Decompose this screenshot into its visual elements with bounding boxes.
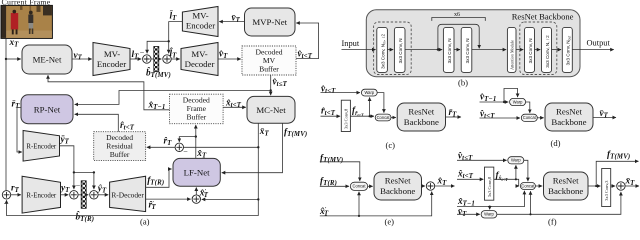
wire Warp to Concat (d)	[526, 102, 530, 113]
node vhat(t<=T) label	[273, 77, 288, 88]
wire xhat(T-1) frame buffer to ME-Net	[48, 75, 170, 110]
wire bar R to adder B2	[86, 194, 88, 196]
wire backbone to conv3 (f)	[588, 185, 601, 187]
svg-text:(e): (e)	[385, 217, 395, 227]
svg-text:3x3 Conv, N, ↑2: 3x3 Conv, N, ↑2	[545, 35, 550, 68]
wire vbarT MVP-Net to upper MV-Encoder	[219, 21, 244, 23]
svg-text:v̂t≤T: v̂t≤T	[273, 77, 288, 88]
node vhat(t<T) label	[298, 49, 313, 60]
svg-text:x̂T−1: x̂T−1	[457, 196, 475, 207]
node vhatT label	[219, 49, 228, 60]
op Warp (d)	[510, 98, 526, 105]
conv box 3x3 Conv N (res1)	[443, 27, 454, 72]
junction skip start	[437, 48, 439, 50]
wire Concat to backbone (f)	[535, 185, 542, 187]
svg-text:Decoder: Decoder	[185, 59, 215, 69]
wire f_T(MV) output up and right (f)	[596, 161, 638, 186]
wire self-loop into Warp top (d)	[504, 89, 518, 103]
svg-text:MV-: MV-	[191, 49, 207, 59]
adder F	[617, 182, 625, 190]
node vhat(T-1) input label (d)	[480, 92, 496, 103]
svg-text:(d): (d)	[551, 138, 561, 148]
wire rhat'T R-Decoder to adder LF	[146, 198, 191, 200]
op Warp (c)	[361, 89, 377, 96]
node xbarT label	[259, 127, 270, 138]
wire xhatT branch to residual subtractor	[179, 137, 196, 142]
conv box 3x3 Conv 8 (f)	[485, 167, 494, 200]
wire Concat to backbone (e)	[368, 185, 373, 187]
wire f_T(R) to Concat (e)	[320, 185, 349, 187]
adder A2 (add lbar back)	[163, 55, 171, 63]
node vbarT label	[232, 14, 241, 25]
junction xbarT at rhat line	[257, 146, 259, 148]
node xT label	[9, 38, 20, 49]
svg-text:b̂T(R): b̂T(R)	[76, 210, 95, 223]
wire xbarT branch to adder LF	[202, 198, 259, 200]
wire input to conv1	[342, 49, 376, 51]
wire warped frame branch up to Concat (f)	[530, 191, 532, 214]
svg-text:v̂T: v̂T	[219, 49, 228, 60]
bitstream bar R	[81, 181, 86, 209]
current frame thumbnail	[1, 0, 52, 38]
wire lT to adder	[130, 58, 141, 60]
svg-text:Warp: Warp	[513, 99, 523, 104]
wire vhat(t<T) from MV buffer to MVP-Net	[296, 23, 319, 59]
block R-Encoder (residual)	[22, 176, 60, 213]
wire feature up into Warp1 (f)	[515, 165, 517, 179]
junction xhat'T (e)	[358, 215, 360, 217]
adder E	[426, 182, 434, 190]
svg-text:Warp: Warp	[484, 212, 494, 217]
svg-text:ResNet: ResNet	[385, 176, 411, 186]
node xhatT label	[196, 148, 207, 159]
svg-text:vT: vT	[74, 51, 83, 62]
wire rhat(t<T) residual buffer to RP-Net	[75, 114, 119, 131]
panel label (e)	[385, 217, 395, 227]
svg-text:l̄T: l̄T	[170, 10, 178, 22]
svg-text:MV-: MV-	[192, 11, 208, 21]
panel label (c)	[386, 140, 396, 150]
node f_T(MV) output label (f)	[607, 150, 630, 161]
svg-text:x̂T−1: x̂T−1	[148, 100, 166, 111]
svg-text:x̂′T: x̂′T	[199, 188, 209, 199]
svg-text:r̄T: r̄T	[12, 99, 21, 110]
svg-text:xT: xT	[9, 38, 20, 49]
svg-text:Backbone: Backbone	[380, 186, 415, 196]
node vT label	[74, 51, 83, 62]
svg-text:R-Encoder: R-Encoder	[26, 144, 57, 151]
svg-text:MVP-Net: MVP-Net	[252, 17, 287, 27]
wire conv7 to output	[572, 49, 614, 51]
block MV-Encoder (main)	[93, 43, 130, 76]
svg-text:fT(MV): fT(MV)	[284, 127, 307, 138]
wire adder A1 to bitstream bar	[151, 58, 153, 60]
svg-text:x̂t<T: x̂t<T	[457, 169, 474, 180]
block LF-Net	[173, 158, 220, 186]
wire rhat(t<T) to conv (c)	[321, 115, 341, 117]
bracket x6	[432, 18, 486, 21]
svg-text:x̂T: x̂T	[196, 148, 207, 159]
op Concat (e)	[350, 182, 367, 190]
svg-text:l̂T: l̂T	[170, 46, 178, 59]
svg-text:3x3 Conv, N: 3x3 Conv, N	[447, 38, 452, 63]
node rT label	[11, 184, 20, 195]
junction xhatT	[195, 135, 197, 137]
block Attention Module	[507, 27, 516, 72]
svg-text:Buffer: Buffer	[110, 150, 130, 159]
wire bar to adder A2	[159, 58, 162, 60]
junction ybarT left	[73, 171, 75, 173]
node rhat(t<T) label	[120, 120, 135, 131]
wire backbone to adder (e)	[422, 185, 426, 187]
junction xbarT at adder LF line	[257, 198, 259, 200]
junction xhat(T-1) tap (f)	[489, 206, 491, 208]
junction lbarT	[168, 40, 170, 42]
svg-text:fT(R): fT(R)	[147, 176, 164, 187]
adder B2 (add ybar back)	[90, 191, 98, 199]
conv box 3x3 Conv 3 (f)	[602, 169, 611, 207]
svg-text:r̂t<T: r̂t<T	[321, 106, 336, 117]
node xhatT output label (e)	[437, 176, 448, 187]
svg-text:fT(MV): fT(MV)	[320, 153, 343, 164]
svg-text:ResNet: ResNet	[553, 176, 579, 186]
adder A1 (lT minus lbar)	[140, 48, 151, 63]
svg-text:3x3 Conv, N: 3x3 Conv, N	[465, 38, 470, 63]
wire xhat(T-1) branch into Warp2 (f)	[489, 207, 491, 210]
wire output rbarT (c)	[446, 116, 462, 118]
node xbarT output label (f)	[625, 176, 636, 187]
panel label (f)	[548, 217, 557, 227]
wire f_T(MV) to Concat (e)	[320, 162, 360, 181]
block ResNet Backbone (e)	[374, 172, 422, 200]
svg-text:yT: yT	[60, 184, 70, 195]
svg-text:ResNet: ResNet	[408, 107, 434, 117]
wire lbarT branch to adder A2	[168, 41, 170, 53]
svg-text:x̂t<T: x̂t<T	[225, 98, 242, 109]
wire A2 to MV-Decoder	[171, 58, 180, 60]
wire B1 to bitstream bar R	[78, 194, 81, 196]
node xhat'T input label (e)	[319, 206, 329, 217]
block ResNet Backbone (d)	[545, 103, 593, 131]
node x6 label	[454, 12, 460, 18]
svg-text:v̂t<T: v̂t<T	[298, 49, 313, 60]
node xhat(t<T) input label (f)	[457, 169, 474, 180]
svg-text:Encoder: Encoder	[97, 59, 126, 69]
adder SUB (rT = xT - xbarT)	[2, 191, 10, 209]
wire conv3 to adder F (f)	[611, 185, 616, 187]
dashed group downsample convs	[374, 22, 412, 75]
svg-text:Attention Module: Attention Module	[510, 40, 515, 70]
wire conv to Concat (c)	[350, 115, 374, 117]
svg-text:ŷT: ŷT	[97, 184, 107, 195]
block MV-Decoder	[181, 43, 218, 76]
wire vhat(t<=T) long tap to RP-Net	[75, 91, 271, 105]
svg-text:x̄T: x̄T	[259, 127, 270, 138]
block upper MV-Encoder (prediction branch)	[182, 7, 218, 37]
svg-text:x̂T: x̂T	[437, 176, 448, 187]
buffer Decoded MV Buffer	[242, 46, 296, 75]
junction loop (d)	[503, 101, 505, 103]
node rbarT label	[12, 99, 21, 110]
wire vhat(t<=T) to Warp (c)	[321, 92, 361, 94]
wire conv2 to resblock	[405, 49, 442, 51]
svg-text:r̂′T: r̂′T	[149, 200, 157, 211]
svg-text:R-Decoder: R-Decoder	[111, 190, 144, 199]
svg-text:fT(R): fT(R)	[320, 177, 337, 188]
wire rbarT RP-Net to R-Encoder1	[17, 108, 22, 153]
block MVP-Net	[245, 8, 296, 36]
svg-text:fx̂t<T: fx̂t<T	[496, 171, 509, 182]
node f_T(R) label	[147, 176, 164, 187]
wire yT to adder B1	[61, 194, 69, 196]
conv box 3x3 Conv 8 (c)	[341, 100, 350, 131]
svg-text:−: −	[140, 48, 145, 57]
conv box 3x3 Conv Nin down2	[377, 27, 388, 72]
svg-text:ȳT: ȳT	[60, 135, 70, 146]
wire conv5 to conv6	[535, 49, 541, 51]
svg-text:r̂t<T: r̂t<T	[120, 120, 135, 131]
svg-text:(a): (a)	[140, 217, 150, 227]
wire ybarT branch to adder B1	[73, 172, 75, 189]
junction feature tap (f)	[515, 178, 517, 180]
conv box 3x3 Conv Nout	[562, 27, 572, 72]
junction f_T(MV) tap (f)	[595, 185, 597, 187]
wire f_T(MV) from MC-Net to LF-Net	[222, 123, 283, 173]
svg-text:rT: rT	[11, 184, 20, 195]
wire xhat(t<T) frame buffer to MC-Net	[223, 106, 246, 108]
junction warped frame tap (f)	[529, 213, 531, 215]
wire xhat'T branch up to Concat (e)	[358, 192, 360, 216]
wire feature up into Warp (c)	[369, 97, 371, 116]
wire xhat(T-1) to Concat bottom (f)	[457, 191, 524, 207]
wire adder LF up into LF-Net	[195, 187, 197, 195]
node vhat(t<=T) input label (c)	[321, 84, 336, 95]
svg-text:Concat: Concat	[523, 115, 537, 120]
block R-Decoder	[110, 176, 146, 211]
node f_rhat label (c)	[352, 106, 364, 117]
wire Concat to backbone (c)	[391, 117, 396, 119]
svg-text:LF-Net: LF-Net	[184, 167, 210, 177]
adder LF (xbar + rhat')	[192, 195, 200, 203]
node yT label	[60, 184, 70, 195]
wire conv1 to conv2	[387, 49, 393, 51]
adder RS (rhatT = xhatT - xbarT)	[175, 143, 188, 156]
svg-text:3x3 Conv, N: 3x3 Conv, N	[528, 38, 533, 63]
svg-text:r̄T: r̄T	[449, 108, 458, 119]
wire lbarT from upper encoder down to adders	[147, 22, 182, 54]
block ResNet Backbone (c)	[397, 103, 445, 131]
node f_xhat label (f)	[496, 171, 509, 182]
node vbarT output label (d)	[600, 109, 609, 120]
block ResNet Backbone container	[366, 10, 580, 77]
node rbarT output label (c)	[449, 108, 458, 119]
node yhatT label	[97, 184, 107, 195]
op Concat (d)	[521, 114, 537, 121]
svg-text:(c): (c)	[386, 140, 396, 150]
junction feature tap (c)	[369, 115, 371, 117]
svg-text:R-Encoder: R-Encoder	[26, 193, 57, 200]
svg-text:Warp: Warp	[511, 158, 521, 163]
wire Concat to backbone (d)	[537, 117, 543, 119]
svg-text:ME-Net: ME-Net	[33, 55, 62, 65]
node xhat(T-1) label	[148, 100, 166, 111]
wire residual skip over resblock	[438, 24, 479, 49]
wire Warp2 warped frame to adder F (f)	[497, 192, 621, 214]
wire output xbarT (f)	[625, 185, 639, 187]
svg-text:Concat: Concat	[353, 184, 367, 189]
wire attention to conv5	[516, 49, 523, 51]
bitstream bar MV	[154, 47, 159, 72]
panel label (d)	[551, 138, 561, 148]
op Warp2 (f)	[481, 211, 497, 218]
svg-text:Backbone: Backbone	[404, 117, 439, 127]
wire xbarT from MC-Net down	[7, 123, 259, 215]
node xhat'T label	[199, 188, 209, 199]
wire vT: ME-Net to MV-Encoder	[72, 58, 92, 60]
junction vhat tap	[270, 89, 272, 91]
svg-text:Backbone: Backbone	[551, 117, 586, 127]
svg-text:Buffer: Buffer	[259, 65, 279, 74]
wire xhat(t<T) to conv (f)	[457, 178, 483, 180]
conv box 3x3 Conv N (2)	[394, 27, 405, 72]
svg-text:r̂T: r̂T	[164, 135, 173, 146]
buffer Decoded Frame Buffer	[170, 94, 224, 124]
node ybarT label	[60, 135, 70, 146]
wire res1 to res2	[454, 49, 460, 51]
wire vhat(T-1) to Warp (d)	[480, 101, 509, 103]
node vhat(t<=T) input label (f)	[458, 151, 473, 162]
wire rT subtractor to R-Encoder2	[11, 194, 21, 196]
node lT label	[132, 50, 140, 61]
block R-Encoder (prediction)	[23, 131, 59, 162]
svg-text:Input: Input	[342, 39, 360, 48]
wire conv6 to conv7	[552, 49, 562, 51]
wire xbarT into adder RS	[184, 146, 259, 148]
svg-text:MV-: MV-	[104, 49, 120, 59]
node lhatT label	[170, 46, 178, 59]
wire Warp to Concat (c)	[377, 93, 384, 113]
svg-text:(b): (b)	[458, 78, 468, 88]
wire xhatT LF-Net up to frame buffer	[195, 125, 197, 158]
svg-text:MC-Net: MC-Net	[256, 105, 286, 115]
node b_T(R) label	[76, 210, 95, 223]
svg-text:x̄T: x̄T	[625, 176, 636, 187]
node vhat(t<T) input label (d)	[480, 109, 495, 120]
wire ybarT down to residual adders	[60, 146, 94, 189]
block ResNet Backbone (f)	[544, 172, 589, 200]
svg-text:v̂t≤T: v̂t≤T	[321, 84, 336, 95]
svg-text:−: −	[183, 147, 188, 156]
junction ybarT right	[93, 171, 95, 173]
wire vbarT to Warp2 (f)	[457, 213, 480, 215]
node rhatT label	[164, 135, 173, 146]
wire f_T(R) R-Decoder to LF-Net	[146, 169, 172, 187]
wire B2 to R-Decoder	[98, 194, 108, 196]
svg-text:Output: Output	[587, 39, 611, 48]
wire Warp1 to Concat top (f)	[524, 160, 528, 181]
svg-text:ResNet: ResNet	[556, 107, 582, 117]
block MC-Net	[247, 96, 295, 123]
wire res2 to attention	[472, 49, 506, 51]
svg-text:3x3 Conv, N: 3x3 Conv, N	[398, 38, 403, 63]
op Warp1 (f)	[508, 157, 524, 164]
svg-text:Concat: Concat	[521, 183, 535, 188]
wire vhat(t<=T) buffer to MC-Net	[270, 75, 272, 95]
svg-text:Buffer: Buffer	[186, 113, 206, 122]
svg-text:RP-Net: RP-Net	[34, 104, 61, 114]
junction xT to ME-Net	[5, 58, 7, 60]
conv box 3x3 Conv N up2	[542, 27, 552, 72]
wire output xhatT (e)	[435, 185, 455, 187]
block RP-Net	[21, 95, 73, 124]
svg-text:Encoder: Encoder	[186, 21, 215, 31]
wire xT into ME-Net	[6, 58, 21, 60]
op Concat (f)	[520, 183, 535, 190]
wire xhat'T bottom to adder (e)	[320, 192, 432, 216]
panel label (a)	[140, 217, 150, 227]
node b_T(MV) label	[146, 66, 171, 79]
conv box 3x3 Conv N (5)	[525, 27, 535, 72]
svg-text:(f): (f)	[548, 217, 557, 227]
wire conv to Concat (f)	[494, 179, 519, 186]
node rhat'T label	[149, 200, 157, 211]
node vbarT input label (f)	[458, 207, 467, 218]
node Input label	[342, 39, 360, 48]
node xhat(T-1) input label (f)	[457, 196, 475, 207]
panel label (b)	[458, 78, 468, 88]
node f_T(R) input label (e)	[320, 177, 337, 188]
svg-text:fT(MV): fT(MV)	[607, 150, 630, 161]
wire vhat(t<=T) to Warp1 (f)	[457, 159, 507, 161]
wire xT vertical from frame down to subtractor	[5, 39, 7, 191]
wire vhat(t<T) to Concat (d)	[480, 117, 521, 119]
dashed group upsample convs	[520, 22, 557, 75]
node Output label	[587, 39, 611, 48]
svg-text:Warp: Warp	[364, 90, 374, 95]
buffer Decoded Residual Buffer	[94, 132, 146, 161]
block ME-Net	[22, 45, 72, 74]
svg-text:v̄T: v̄T	[458, 207, 467, 218]
svg-text:v̄T: v̄T	[232, 14, 241, 25]
node lbarT label	[170, 10, 178, 22]
op Concat (c)	[375, 114, 391, 121]
adder B1 (yT minus ybar)	[70, 181, 81, 199]
node f_T(MV) input label (e)	[320, 153, 343, 164]
conv box 3x3 Conv N (res2)	[461, 27, 472, 72]
svg-text:−: −	[76, 181, 81, 190]
node xhat(t<T) label	[225, 98, 242, 109]
svg-text:v̄T: v̄T	[600, 109, 609, 120]
svg-text:ResNet Backbone: ResNet Backbone	[512, 12, 574, 22]
node f_T(MV) label (panel a)	[284, 127, 307, 138]
svg-text:x6: x6	[454, 12, 460, 18]
svg-text:Backbone: Backbone	[548, 186, 583, 196]
wire rhatT into residual buffer	[147, 146, 175, 148]
wire output vbarT (d)	[593, 117, 616, 119]
wire vhatT into Decoded MV Buffer	[218, 58, 241, 60]
svg-text:v̂T−1: v̂T−1	[480, 92, 496, 103]
svg-text:Concat: Concat	[377, 115, 391, 120]
node rhat(t<T) input label (c)	[321, 106, 336, 117]
